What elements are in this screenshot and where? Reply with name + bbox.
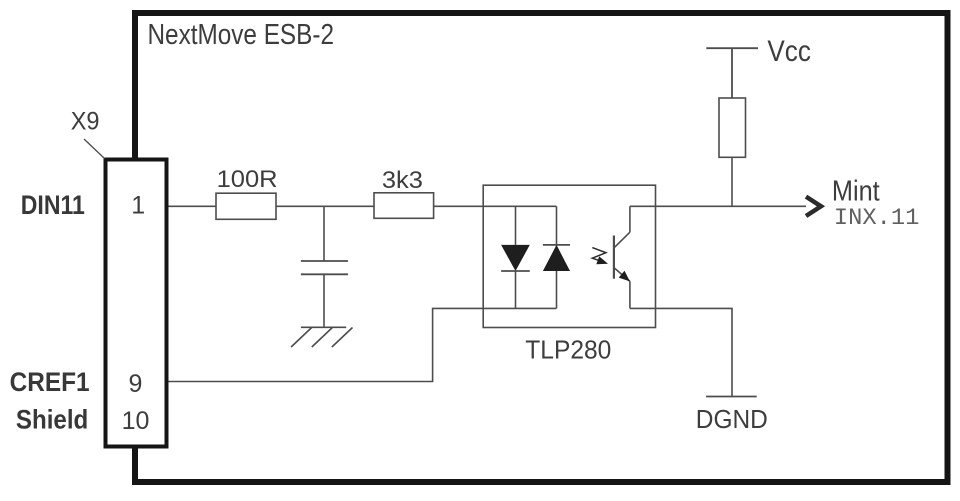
svg-text:Vcc: Vcc [767, 35, 811, 68]
svg-text:Shield: Shield [16, 404, 88, 434]
LED D1 (down) [501, 206, 530, 308]
leader line X9 [84, 139, 105, 159]
chassis ground [291, 327, 352, 347]
svg-text:1: 1 [131, 192, 145, 220]
svg-text:Mint: Mint [832, 176, 880, 208]
wire R3 to output node [731, 157, 733, 206]
optocoupler U1 TLP280 box [483, 185, 655, 327]
wire pin1 to R1 [167, 205, 216, 207]
wire R2 to optocoupler LED rail [434, 205, 557, 207]
connector X9 [106, 160, 167, 447]
wire collector to output [630, 205, 806, 207]
wire capacitor to ground [323, 274, 325, 327]
svg-text:10: 10 [122, 407, 150, 435]
output arrow [806, 197, 821, 216]
wire emitter to DGND [630, 308, 732, 396]
svg-text:CREF1: CREF1 [10, 367, 90, 397]
svg-text:X9: X9 [71, 108, 100, 136]
node capacitor junction [323, 206, 325, 261]
light arrow [592, 248, 608, 265]
svg-text:TLP280: TLP280 [525, 334, 611, 364]
Vcc symbol [706, 48, 758, 98]
phototransistor Q1 [614, 206, 630, 308]
svg-text:3k3: 3k3 [382, 167, 423, 194]
svg-text:DGND: DGND [696, 406, 768, 434]
svg-text:NextMove ESB-2: NextMove ESB-2 [148, 19, 335, 51]
svg-text:9: 9 [129, 370, 143, 398]
resistor R1 100R [216, 193, 276, 219]
capacitor C1 [301, 261, 348, 274]
svg-text:DIN11: DIN11 [21, 190, 85, 220]
DGND symbol [706, 396, 757, 398]
wire R1 to R2 [276, 205, 374, 207]
LED D2 (up) [543, 206, 570, 308]
enclosure border NextMove ESB-2 [135, 13, 948, 482]
svg-text:100R: 100R [217, 166, 278, 193]
resistor R3 pull-up [719, 98, 746, 157]
svg-text:INX.11: INX.11 [834, 205, 920, 231]
wire CREF1 pin9 [167, 308, 557, 381]
resistor R2 3k3 [374, 193, 434, 219]
